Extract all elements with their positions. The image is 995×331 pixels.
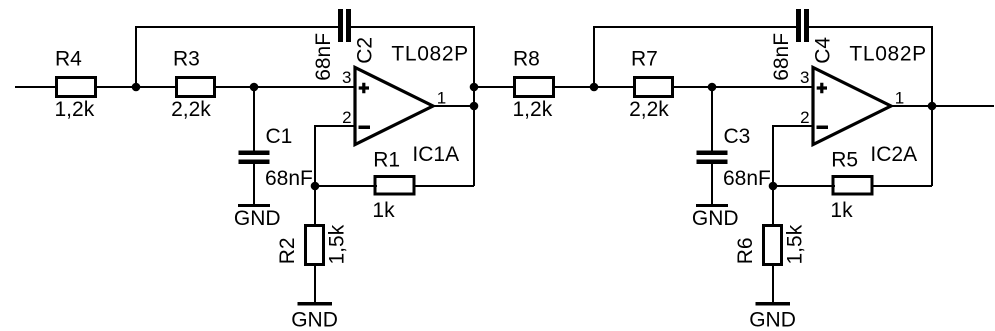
svg-text:3: 3: [800, 68, 809, 87]
svg-text:C2: C2: [353, 37, 376, 64]
resistor R1: [372, 149, 414, 222]
svg-text:R1: R1: [373, 149, 400, 172]
svg-text:IC2A: IC2A: [870, 143, 917, 166]
svg-text:IC1A: IC1A: [412, 143, 459, 166]
wire: [253, 164, 255, 205]
resistor R5: [830, 149, 872, 222]
wire top feedback left: [136, 27, 339, 87]
wire: [772, 186, 774, 227]
wire: [711, 164, 713, 205]
svg-text:GND: GND: [291, 309, 338, 331]
svg-text:R8: R8: [513, 48, 540, 71]
wire: [253, 87, 255, 151]
resistor R7: [629, 48, 672, 122]
resistor R8: [513, 48, 554, 122]
wire input: [15, 86, 57, 88]
svg-text:C3: C3: [724, 125, 751, 148]
op-amp IC2A: [813, 43, 927, 167]
wire: [314, 186, 316, 227]
svg-text:2,2k: 2,2k: [629, 98, 669, 121]
svg-text:68nF: 68nF: [312, 33, 335, 81]
ground: [291, 302, 338, 331]
capacitor C3: [697, 125, 771, 190]
svg-text:C1: C1: [266, 125, 293, 148]
wire top feedback right: [809, 27, 932, 186]
wire: [414, 185, 475, 187]
wire: [711, 87, 713, 151]
svg-text:1,2k: 1,2k: [55, 98, 95, 121]
ground: [692, 204, 739, 230]
resistor R4: [55, 48, 96, 122]
svg-text:R3: R3: [173, 48, 200, 71]
node junction out2: [928, 102, 937, 111]
capacitor C1: [239, 125, 313, 190]
wire to pin 3: [215, 86, 356, 88]
svg-text:GND: GND: [749, 309, 796, 331]
svg-text:1,5k: 1,5k: [326, 224, 349, 264]
svg-text:1k: 1k: [830, 199, 853, 222]
svg-text:GND: GND: [234, 207, 281, 230]
svg-text:2: 2: [342, 108, 351, 127]
svg-text:R4: R4: [55, 48, 82, 71]
svg-text:1,2k: 1,2k: [513, 98, 553, 121]
wire: [773, 185, 835, 187]
ground: [749, 302, 796, 331]
svg-text:R5: R5: [831, 149, 858, 172]
node junction B: [250, 83, 259, 92]
svg-text:1: 1: [437, 89, 446, 108]
svg-text:68nF: 68nF: [265, 167, 313, 190]
resistor R6: [734, 224, 807, 264]
svg-text:1: 1: [895, 89, 904, 108]
wire output: [891, 105, 994, 107]
node junction E: [708, 83, 717, 92]
node junction out1b: [470, 102, 479, 111]
op-amp IC1A: [355, 43, 469, 167]
wire: [95, 86, 177, 88]
node junction F: [769, 182, 778, 191]
svg-text:C4: C4: [811, 37, 834, 64]
svg-text:R7: R7: [631, 48, 658, 71]
svg-text:2,2k: 2,2k: [171, 98, 211, 121]
capacitor C4: [770, 9, 834, 81]
svg-text:GND: GND: [692, 207, 739, 230]
wire to pin 3: [673, 86, 814, 88]
svg-text:R2: R2: [276, 237, 299, 264]
svg-text:R6: R6: [734, 237, 757, 264]
svg-text:TL082P: TL082P: [391, 43, 468, 66]
wire pin 2: [773, 126, 813, 186]
svg-text:3: 3: [342, 68, 351, 87]
svg-text:TL082P: TL082P: [849, 43, 926, 66]
wire: [772, 264, 774, 302]
capacitor C2: [312, 9, 376, 81]
node junction out1a: [470, 83, 479, 92]
wire top feedback left: [594, 27, 797, 87]
wire: [553, 86, 635, 88]
svg-text:2: 2: [800, 108, 809, 127]
node junction A: [132, 83, 141, 92]
resistor R3: [171, 48, 214, 122]
wire: [315, 185, 377, 187]
node junction C: [311, 182, 320, 191]
node junction D: [590, 83, 599, 92]
wire stage1 to stage2: [474, 86, 515, 88]
svg-text:1k: 1k: [372, 199, 395, 222]
svg-text:68nF: 68nF: [770, 33, 793, 81]
wire top feedback right: [351, 27, 474, 186]
svg-text:68nF: 68nF: [723, 167, 771, 190]
wire output: [433, 105, 474, 107]
wire: [872, 185, 933, 187]
svg-text:1,5k: 1,5k: [784, 224, 807, 264]
resistor R2: [276, 224, 349, 264]
ground: [234, 204, 281, 230]
wire: [314, 264, 316, 302]
wire pin 2: [315, 126, 355, 186]
